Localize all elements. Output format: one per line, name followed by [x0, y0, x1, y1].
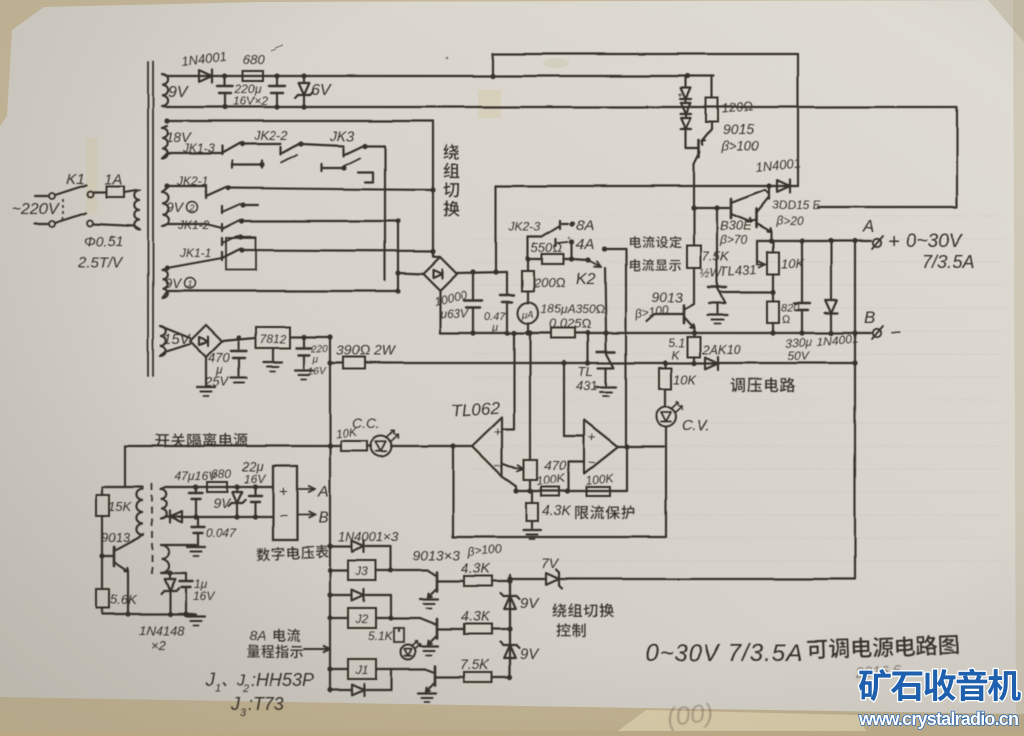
svg-text:B30E: B30E: [720, 218, 752, 233]
node: [525, 330, 530, 335]
zener 9V #2: [501, 629, 520, 677]
svg-text:7V: 7V: [541, 555, 560, 571]
label raozu qiehuan vertical: [443, 144, 459, 217]
svg-text:0.047: 0.047: [206, 526, 237, 540]
transistor Q7: [428, 619, 464, 644]
digital voltmeter box: [273, 466, 297, 540]
wire 9V bottom: [167, 106, 957, 108]
wire output A rail: [757, 240, 871, 242]
resistor 4.3K #3: [464, 624, 510, 634]
transformer T2 core: [151, 483, 153, 578]
svg-text:A: A: [862, 217, 874, 236]
svg-text:−: −: [279, 508, 288, 525]
svg-text:−: −: [494, 458, 502, 473]
svg-text:−: −: [588, 455, 596, 470]
node: [852, 330, 857, 335]
node: [691, 205, 696, 210]
relay J3: [348, 560, 376, 580]
resistor 100K #2: [586, 487, 610, 496]
diode 1N4148 #2: [161, 573, 179, 614]
diode 1N4001 D2: [777, 180, 790, 193]
wire: [242, 220, 398, 222]
svg-text:β>100: β>100: [721, 138, 759, 153]
node: [362, 143, 367, 148]
wire 7V line: [510, 578, 855, 580]
transistor 9013 Q5: [102, 534, 143, 614]
zener 7V: [546, 570, 562, 589]
svg-text:A: A: [317, 484, 329, 501]
svg-text:390Ω 2W: 390Ω 2W: [336, 342, 397, 358]
svg-text:Φ0.51: Φ0.51: [84, 233, 123, 249]
node: [239, 141, 244, 146]
node: [662, 360, 667, 365]
diode loop J1: [330, 669, 391, 696]
svg-text:2.5T/V: 2.5T/V: [77, 254, 124, 271]
LED C.V.: [656, 407, 676, 427]
transformer winding 18V: [162, 126, 168, 158]
svg-text:8A: 8A: [249, 628, 266, 644]
svg-text:5.6K: 5.6K: [110, 592, 138, 607]
wire: [572, 259, 588, 260]
svg-text:1A: 1A: [104, 171, 122, 188]
node: [561, 360, 566, 365]
wire: [626, 447, 628, 491]
svg-text:431: 431: [576, 378, 598, 393]
node: [167, 570, 172, 575]
svg-text:J3: J3: [355, 564, 369, 578]
wire sec2 top: [166, 544, 196, 546]
resistor 820: [767, 292, 779, 333]
diode 1N4001 D3: [825, 241, 838, 333]
svg-text:β>20: β>20: [775, 214, 804, 228]
wire rectifier positive rail: [496, 185, 798, 187]
switch contacts: [222, 204, 258, 213]
svg-text:3DD15 E: 3DD15 E: [772, 198, 822, 212]
wire 9V-1 bottom: [167, 290, 398, 292]
svg-text:16V: 16V: [193, 589, 215, 603]
wire: [222, 338, 256, 341]
wire CC line: [125, 445, 453, 447]
wire: [242, 143, 281, 145]
svg-text:9013×3: 9013×3: [413, 547, 460, 563]
node: [507, 578, 512, 583]
resistor 15K: [96, 487, 109, 589]
svg-text:μ: μ: [491, 322, 498, 334]
svg-text:1: 1: [188, 279, 193, 289]
resistor 680 #2: [207, 482, 227, 492]
wire JK vertical: [432, 121, 434, 256]
svg-text:4.3K: 4.3K: [542, 502, 571, 518]
node: [564, 488, 569, 493]
transistor Q6: [428, 572, 464, 597]
node: [327, 443, 332, 448]
svg-text:~220V: ~220V: [12, 201, 60, 218]
svg-text:J2: J2: [355, 612, 369, 626]
node: [768, 238, 773, 243]
wire: [618, 446, 664, 448]
transistor Q8: [426, 666, 464, 691]
svg-text:4.3K: 4.3K: [461, 560, 490, 576]
wire: [605, 268, 606, 333]
svg-text:5.1K: 5.1K: [368, 629, 394, 643]
svg-text:μ: μ: [312, 354, 319, 365]
svg-text:4A: 4A: [576, 236, 594, 253]
diode loop J3: [330, 540, 391, 570]
svg-text:15K: 15K: [108, 499, 132, 514]
op-amp U1A: [472, 417, 502, 476]
label shuzi dianyabiao: [257, 544, 329, 561]
node: [99, 553, 104, 558]
node: [585, 330, 590, 335]
zener 6V: [295, 76, 313, 107]
wire bridge out: [457, 272, 507, 273]
transistor 9013 Q2: [647, 304, 694, 333]
node: [395, 218, 400, 223]
svg-text:1N4001×3: 1N4001×3: [338, 529, 399, 544]
regulator 7812 U3: [256, 327, 290, 348]
bridge rectifier BR2: [165, 325, 222, 357]
wire: [330, 569, 348, 571]
wire: [502, 476, 516, 491]
diode 2AK10: [705, 357, 718, 370]
shunt ref TL431 U4: [596, 333, 616, 396]
svg-text:7812: 7812: [260, 332, 287, 346]
label J1 J2 HH53P: [205, 670, 314, 695]
capacitor 1u 16V: [180, 573, 193, 614]
transformer T1 primary: [93, 190, 140, 230]
wire: [571, 242, 573, 259]
node: [450, 443, 455, 448]
wire: [432, 251, 434, 256]
svg-text:+: +: [888, 231, 900, 253]
node: [164, 183, 169, 188]
transistor TL431 U2: [707, 208, 727, 324]
resistor 550ohm: [528, 254, 572, 264]
svg-text:C.V.: C.V.: [682, 417, 710, 434]
node: [222, 73, 227, 78]
op-amp U1B: [584, 420, 618, 474]
node: [507, 674, 512, 679]
wire: [365, 146, 385, 280]
wire top box: [493, 54, 798, 186]
wire: [391, 669, 433, 672]
relay J2: [348, 608, 376, 628]
fuse 1A: [93, 186, 136, 197]
node: [624, 444, 629, 449]
bridge rectifier BR1: [423, 257, 457, 291]
ground: [197, 357, 215, 396]
switch JK2-3: [528, 221, 568, 259]
svg-text:9V: 9V: [164, 275, 183, 291]
wire feedback: [516, 490, 627, 492]
resistor 120ohm: [706, 76, 718, 129]
transistor 9015 Q1: [686, 129, 712, 208]
capacitor 22u16V: [249, 487, 262, 517]
switch JK1-1: [167, 238, 256, 270]
svg-text:K2: K2: [576, 271, 596, 288]
node: [193, 514, 198, 519]
node: [125, 611, 130, 616]
title CJK: [806, 634, 958, 660]
svg-text:2AK10: 2AK10: [701, 342, 742, 357]
node: [301, 334, 306, 339]
svg-text:JK2-2: JK2-2: [253, 128, 289, 143]
svg-text:www.crystalradio.cn: www.crystalradio.cn: [858, 709, 1018, 729]
svg-text:μA: μA: [521, 310, 534, 321]
transistor B30E Q3: [731, 190, 765, 222]
wire TL431 ref: [721, 291, 773, 293]
node: [327, 360, 332, 365]
node: [513, 488, 518, 493]
svg-text:120Ω: 120Ω: [721, 98, 754, 116]
wire 9V top: [167, 75, 714, 77]
node: [274, 73, 279, 78]
node: [225, 185, 230, 190]
svg-text::T73: :T73: [248, 694, 284, 714]
svg-text:550Ω: 550Ω: [531, 240, 563, 255]
wire left rail down: [329, 337, 331, 692]
shunt resistor 0.025: [551, 328, 575, 338]
switch K1: [35, 185, 93, 227]
svg-text:JK3: JK3: [329, 128, 354, 144]
potentiometer 10K: [757, 241, 779, 292]
switch JK2-1: [167, 186, 226, 198]
wire to B: [297, 514, 315, 516]
svg-text:6V: 6V: [311, 82, 332, 99]
node: [507, 626, 512, 631]
terminal A: [872, 236, 883, 249]
svg-text:μ63V: μ63V: [439, 307, 469, 321]
svg-text:4.3K: 4.3K: [461, 608, 490, 624]
resistor 7.5K #2: [464, 672, 510, 682]
wire sec2 bottom: [166, 572, 186, 574]
capacitor 220u #1: [217, 76, 233, 107]
diode loop J2: [330, 589, 391, 618]
wire negative bus: [440, 332, 871, 334]
transformer T2 secondary 1: [161, 487, 167, 519]
svg-text:8A: 8A: [576, 217, 594, 234]
svg-text:680: 680: [211, 467, 231, 481]
wire collectors: [768, 186, 770, 199]
svg-text:9V: 9V: [520, 595, 540, 612]
node: [238, 234, 243, 239]
node: [301, 73, 306, 78]
wire: [102, 446, 143, 487]
node: [430, 248, 435, 253]
resistor 5.1K: [687, 333, 700, 363]
wire: [330, 668, 348, 670]
svg-text:(00): (00): [665, 697, 714, 731]
ground: [187, 615, 205, 617]
diode 1N4001 D1: [199, 70, 212, 83]
svg-text:16V: 16V: [308, 366, 327, 377]
node: [527, 330, 532, 335]
node: [298, 141, 303, 146]
wire bottom: [102, 613, 196, 615]
watermark logo: [859, 669, 1021, 701]
meter uA M1: [518, 303, 539, 334]
wire sec1 top: [166, 486, 273, 488]
svg-text:9013: 9013: [101, 530, 131, 545]
transformer T2 primary: [136, 487, 143, 535]
node: [585, 257, 590, 262]
ground: [264, 348, 282, 371]
svg-text:9V: 9V: [166, 199, 185, 215]
resistor 390ohm 2W: [330, 357, 855, 369]
node: [239, 218, 244, 223]
svg-text:+: +: [279, 484, 288, 501]
ground: [187, 546, 205, 548]
svg-text:2: 2: [189, 203, 195, 213]
transistor 3DD15 Q4: [751, 198, 771, 241]
resistor 200ohm: [522, 259, 534, 303]
svg-text:+: +: [588, 429, 596, 444]
capacitor 220u 16V: [295, 337, 313, 379]
svg-text:B: B: [864, 308, 875, 327]
wire riser to rail: [495, 186, 497, 272]
svg-text:K1: K1: [66, 171, 84, 188]
svg-text:680: 680: [243, 52, 265, 67]
capacitor 330u 50V: [794, 241, 810, 333]
svg-text:9V: 9V: [520, 646, 540, 663]
switch JK1-3: [167, 143, 240, 154]
node: [714, 205, 719, 210]
resistor 10K #1: [341, 441, 367, 451]
wire: [439, 291, 441, 333]
svg-text:0~30V 7/3.5A: 0~30V 7/3.5A: [645, 640, 803, 667]
ground: [420, 645, 438, 647]
label xianliu baohu: [575, 505, 634, 519]
transformer winding 9V: [162, 74, 168, 107]
svg-text:C.C.: C.C.: [352, 415, 380, 431]
relay J1: [348, 659, 376, 679]
node: [691, 330, 696, 335]
wire bus tap: [587, 333, 589, 363]
node: [766, 183, 771, 188]
resistor 680: [243, 71, 263, 81]
wire: [228, 188, 433, 190]
wire inv: [568, 462, 584, 491]
wire: [330, 617, 348, 619]
potentiometer 470: [524, 333, 537, 491]
svg-text:β>70: β>70: [719, 233, 748, 247]
resistor 10K #2: [659, 363, 671, 407]
node: [193, 484, 198, 489]
svg-text:185μA350Ω: 185μA350Ω: [541, 302, 605, 316]
svg-text:JK2-3: JK2-3: [508, 220, 541, 234]
svg-text:9V: 9V: [213, 495, 232, 511]
svg-text:9V: 9V: [168, 84, 189, 101]
svg-text:+: +: [494, 424, 502, 439]
wire sec1 bottom: [166, 516, 273, 518]
LED C.C.: [371, 436, 392, 457]
svg-text::HH53P: :HH53P: [251, 670, 314, 690]
wire: [665, 427, 667, 537]
node: [525, 256, 530, 261]
wire: [301, 144, 344, 146]
wire: [453, 446, 666, 537]
node: [470, 330, 475, 335]
node: [601, 246, 606, 251]
resistor 100K #1: [541, 487, 559, 496]
arrow: [304, 648, 330, 650]
svg-text:TL431: TL431: [719, 261, 757, 279]
ground: [418, 692, 436, 694]
svg-text:−: −: [890, 323, 901, 344]
wire noninv from bus: [502, 333, 514, 429]
svg-text:7/3.5A: 7/3.5A: [922, 252, 974, 272]
capacitor 0.047: [192, 517, 205, 547]
terminal B: [872, 326, 883, 339]
node: [240, 202, 245, 207]
capacitor 10000u 63V: [464, 272, 482, 333]
svg-text:9015: 9015: [723, 121, 754, 137]
label raozuqiehuan kongzhi: [552, 603, 613, 617]
resistor 7.5K: [687, 208, 701, 304]
label tiaoyua dianlu: [731, 377, 796, 392]
resistor 4.3K: [523, 491, 541, 539]
node: [770, 330, 775, 335]
node: [239, 247, 244, 252]
svg-text:3: 3: [240, 707, 247, 719]
svg-text:10K: 10K: [673, 372, 697, 387]
diode 1N4148 #1: [170, 511, 182, 523]
node: [327, 443, 332, 448]
wire: [397, 221, 399, 291]
transformer T2 secondary 2: [161, 545, 169, 573]
capacitor 0.47u: [500, 272, 514, 333]
wire: [290, 336, 330, 338]
node: [691, 360, 696, 365]
node: [511, 330, 516, 335]
wire: [604, 248, 626, 250]
label kaiguan geli dianyuan: [156, 433, 248, 447]
resistor 4.3K #2: [464, 576, 510, 586]
svg-text:JK1-1: JK1-1: [179, 246, 211, 260]
node: [395, 288, 400, 293]
svg-text:16V×2: 16V×2: [233, 94, 268, 108]
wire 9015 collector to B30E base: [694, 207, 729, 209]
transformer T1 core: [147, 62, 149, 376]
relay contact K2: [588, 260, 601, 267]
transformer winding 15V: [160, 326, 166, 356]
switch JK2-2: [232, 144, 299, 168]
wire: [398, 273, 423, 274]
node: [388, 567, 393, 572]
switch JK3: [322, 146, 373, 182]
svg-text:TL: TL: [578, 364, 593, 379]
svg-text:0~30V: 0~30V: [906, 231, 964, 252]
transformer winding 9V-2: [162, 188, 169, 226]
wire: [376, 618, 435, 624]
wire to A: [297, 488, 315, 490]
capacitor 47u16V: [190, 487, 203, 517]
resistor 5.6K: [96, 589, 109, 614]
node: [236, 335, 241, 340]
svg-text:TL062: TL062: [451, 399, 501, 421]
svg-text:Ω: Ω: [782, 314, 791, 326]
node: [388, 615, 393, 620]
label J3 T73: [230, 694, 284, 719]
node: [490, 73, 495, 78]
capacitor 220u #2: [269, 76, 285, 107]
svg-text:7.5K: 7.5K: [460, 656, 489, 672]
wire right drop: [854, 241, 856, 579]
ground: [420, 598, 438, 600]
wire: [376, 570, 435, 575]
svg-text:J1: J1: [355, 663, 369, 677]
zener 9V #1: [501, 579, 520, 629]
